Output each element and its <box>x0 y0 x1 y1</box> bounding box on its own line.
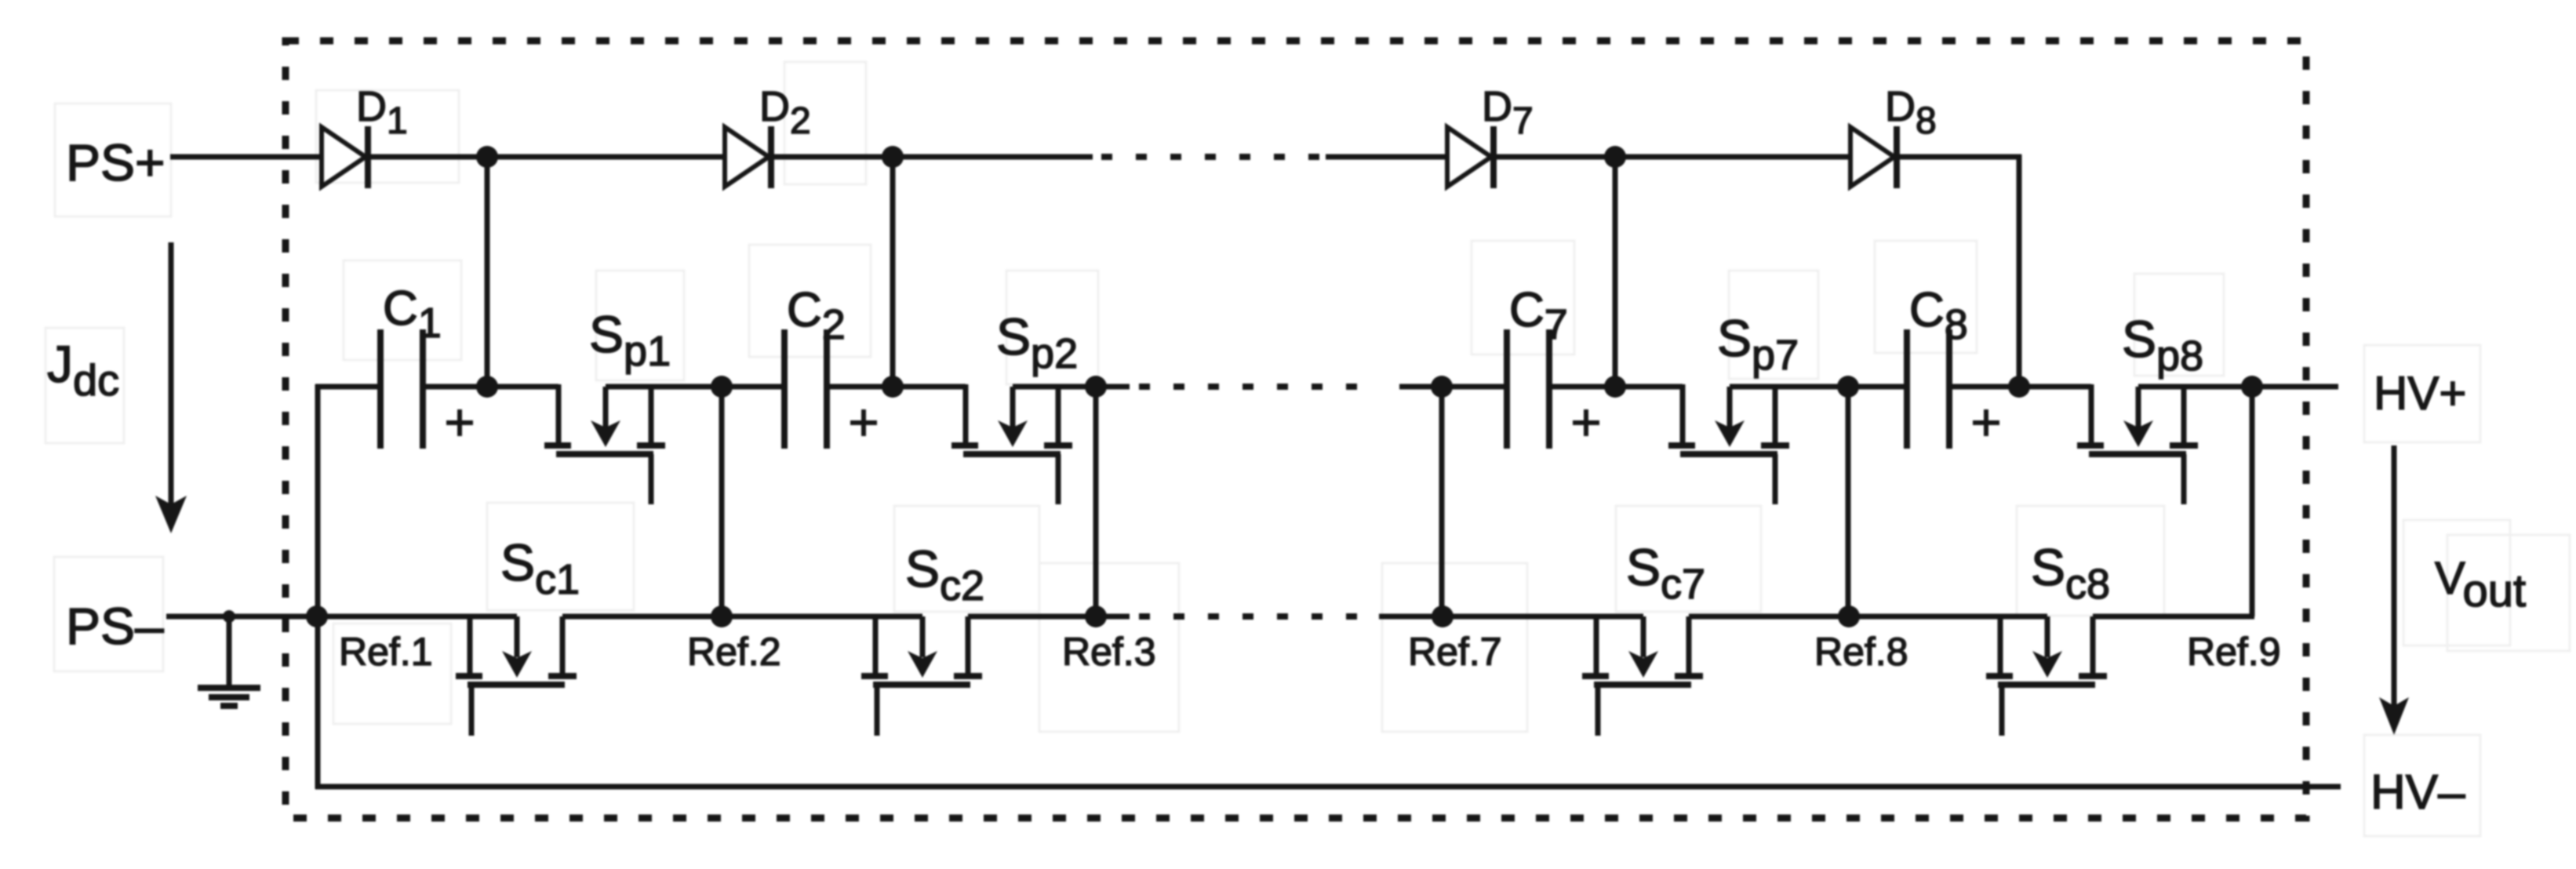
node B7 <box>1837 376 1859 398</box>
faint box Sp2 <box>1006 271 1098 384</box>
faint box Jdc <box>45 328 124 443</box>
diode D2 <box>725 126 771 188</box>
wire Sc2 to dashes <box>968 614 1130 620</box>
node N7 <box>1431 376 1453 398</box>
wire Sp1 to C2 <box>606 384 784 390</box>
faint box Sc8 <box>2017 506 2164 616</box>
wire N7 down to Ref.7 <box>1439 387 1445 616</box>
Vout arrow <box>2379 445 2409 735</box>
wire J2 down to A2 <box>890 157 896 387</box>
wire left bus vertical <box>315 384 321 789</box>
wire Sc7 to Sc8 <box>1689 614 2047 620</box>
faint box PS+ <box>55 104 171 216</box>
wire D8 to corner <box>1897 155 2021 160</box>
wire Sc1 to Sc2 <box>562 614 922 620</box>
ground tap node <box>223 610 235 623</box>
node B2 <box>1085 376 1107 398</box>
ground <box>198 616 260 706</box>
capacitor C8 <box>1907 329 1949 449</box>
switch Sc8 <box>1986 616 2107 736</box>
faint box Ref.1 <box>333 624 451 724</box>
faint box Sc7 <box>1616 506 1761 612</box>
wire dashes to D7 <box>1326 155 1447 160</box>
wire B8 down to Ref.9 <box>2250 387 2255 616</box>
C8 polarity + <box>1973 409 1999 436</box>
svg-text:Ref.1: Ref.1 <box>339 630 433 674</box>
faint box Vout a <box>2403 520 2510 645</box>
bottom rail dashed continuation <box>1139 613 1379 620</box>
svg-text:PS–: PS– <box>66 597 164 655</box>
Jdc current arrow <box>155 242 187 533</box>
node A2 <box>882 376 904 398</box>
wire Ref.1 to Sc1 <box>318 614 517 620</box>
wire C1 to Sp1 <box>423 384 558 390</box>
svg-text:PS+: PS+ <box>66 133 166 191</box>
switch Sp8 <box>2077 384 2198 504</box>
faint box C8 <box>1875 241 1977 353</box>
diode D7 <box>1447 126 1494 188</box>
switch Sc2 <box>861 616 982 736</box>
node Ref.1 <box>306 605 328 627</box>
node A1 <box>476 376 498 398</box>
faint box Sp8 <box>2134 274 2224 376</box>
node J7 <box>1604 146 1626 168</box>
wire D2 to dashes <box>771 155 1093 160</box>
diode D1 <box>322 126 368 188</box>
wire dashes to N7 <box>1399 384 1507 390</box>
wire D7 to D8 <box>1494 155 1850 160</box>
node Ref.2 <box>711 605 733 627</box>
wire J7 down to A7 <box>1613 157 1618 387</box>
wire corner down to A8 <box>2017 155 2022 387</box>
wire B2 down to Ref.3 <box>1093 387 1099 616</box>
node B8 <box>2241 376 2263 398</box>
faint box PS- <box>54 557 163 671</box>
node Ref.8 <box>1838 605 1860 627</box>
svg-text:Ref.3: Ref.3 <box>1062 630 1156 674</box>
wire dashes to Sc7 <box>1379 614 1643 620</box>
faint box Sp7 <box>1729 271 1818 379</box>
wire D1 to D2 <box>368 155 725 160</box>
svg-text:Ref.7: Ref.7 <box>1408 630 1502 674</box>
node J1 <box>476 146 498 168</box>
switch Sp1 <box>544 384 665 504</box>
capacitor C1 <box>380 329 423 449</box>
C1 polarity + <box>446 409 473 436</box>
switch Sc1 <box>456 616 577 736</box>
faint box Sc1 <box>487 503 634 610</box>
wire PS+ to D1 <box>170 155 322 160</box>
C7 polarity + <box>1573 409 1599 436</box>
svg-text:HV+: HV+ <box>2374 367 2466 420</box>
faint box C2 <box>749 245 871 357</box>
dashed enclosure border <box>286 41 2306 818</box>
node Ref.7 <box>1432 605 1454 627</box>
svg-text:HV–: HV– <box>2370 765 2465 820</box>
wire C2 to Sp2 <box>827 384 966 390</box>
faint box Sp1 <box>596 271 684 380</box>
faint box C1 <box>344 260 461 360</box>
node B1 <box>711 376 733 398</box>
faint box D1 <box>316 90 459 183</box>
wire PS- to Ref.1 <box>166 614 318 620</box>
svg-text:Ref.9: Ref.9 <box>2187 630 2281 674</box>
node Ref.3 <box>1085 605 1107 627</box>
wire Sc8 to Ref.9 corner <box>2093 614 2254 620</box>
faint box HV- <box>2364 735 2480 836</box>
wire C8 to Sp8 <box>1949 384 2091 390</box>
faint box HV+ <box>2364 345 2480 442</box>
C2 polarity + <box>850 409 877 436</box>
node J2 <box>882 146 904 168</box>
wire Sp2 to dashes <box>1013 384 1130 390</box>
switch Sc7 <box>1582 616 1703 736</box>
wire B7 down to Ref.8 <box>1846 387 1851 616</box>
faint box Ref.3 <box>1039 563 1179 732</box>
faint box Sc2 <box>894 506 1039 612</box>
wire C7 to Sp7 <box>1549 384 1683 390</box>
wire J1 down to A1 <box>485 157 490 387</box>
wire B1 down to Ref.2 <box>719 387 725 616</box>
top rail dashed continuation <box>1101 154 1321 160</box>
capacitor C2 <box>784 329 827 449</box>
faint box C7 <box>1472 241 1574 355</box>
node A7 <box>1604 376 1626 398</box>
faint box Ref.7 <box>1382 563 1527 732</box>
faint box Vout b <box>2447 535 2570 651</box>
wire bus to C1 <box>315 384 380 390</box>
switch Sp7 <box>1668 384 1789 504</box>
diode D8 <box>1850 126 1897 188</box>
wire Sp7 to C8 <box>1730 384 1907 390</box>
capacitor C7 <box>1507 329 1549 449</box>
capacitor row dashed continuation <box>1139 384 1381 390</box>
node A8 <box>2008 376 2030 398</box>
faint box D2 <box>784 62 866 184</box>
switch Sp2 <box>951 384 1072 504</box>
HV- bus wire <box>315 784 2341 790</box>
wire Sp8 to HV+ <box>2138 384 2338 390</box>
svg-text:Ref.2: Ref.2 <box>687 630 781 674</box>
svg-text:Ref.8: Ref.8 <box>1814 630 1908 674</box>
